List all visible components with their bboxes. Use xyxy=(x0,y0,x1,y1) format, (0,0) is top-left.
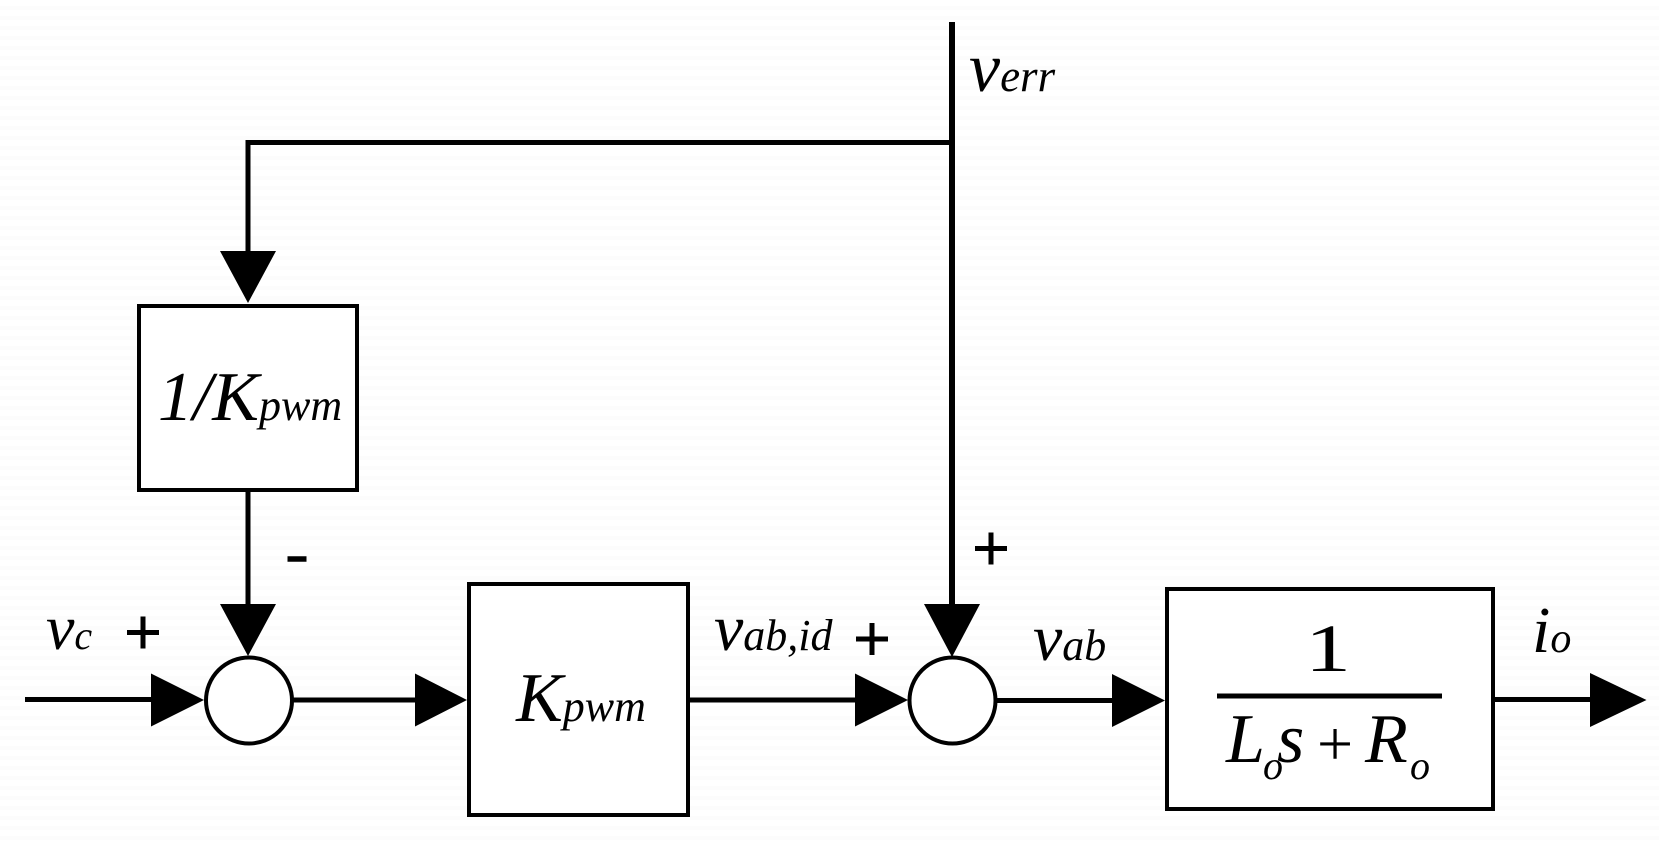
arrowhead into summing junction 1 from left xyxy=(151,674,204,727)
svg-text:1: 1 xyxy=(1305,610,1351,686)
block plant box 1/(Lo s + Ro) xyxy=(1167,589,1493,809)
wire: v_c input line xyxy=(25,697,153,702)
arrowhead into 1/Kpwm box xyxy=(220,251,276,303)
arrowhead into summing junction 2 from top xyxy=(924,604,980,657)
plant fraction bar xyxy=(1217,694,1442,699)
svg-text:vab,id: vab,id xyxy=(714,592,834,665)
wire: feedback horizontal + down segment xyxy=(248,143,954,254)
minus sign at junction 1 xyxy=(288,556,307,562)
arrowhead output xyxy=(1590,673,1647,727)
plus sign for v_err input xyxy=(975,533,1007,565)
plus sign for v_ab,id xyxy=(856,623,888,655)
wire: Kpwm box to summing junction 2 xyxy=(690,698,857,703)
arrowhead into plant box xyxy=(1112,674,1165,727)
summing junction 1 circle xyxy=(206,658,292,744)
block 1/Kpwm box xyxy=(139,306,357,490)
arrowhead into summing junction 2 from left xyxy=(855,674,908,727)
wire: junction 1 to Kpwm box xyxy=(292,698,417,703)
summing junction 2 circle xyxy=(910,658,996,744)
wire: 1/Kpwm box to summing junction 1 xyxy=(246,492,251,606)
svg-text:Los+Ro: Los+Ro xyxy=(1225,701,1430,788)
plus sign for v_c xyxy=(127,617,159,649)
wire: junction 2 to plant box xyxy=(996,698,1114,703)
svg-text:vc: vc xyxy=(46,592,92,663)
block Kpwm box xyxy=(469,584,688,815)
wire: v_err vertical line xyxy=(949,22,955,606)
svg-text:vab: vab xyxy=(1033,602,1106,675)
arrowhead into Kpwm box xyxy=(415,674,467,727)
svg-text:io: io xyxy=(1532,594,1571,667)
wire: plant box output xyxy=(1495,697,1592,702)
arrowhead into summing junction 1 xyxy=(220,604,276,656)
svg-text:verr: verr xyxy=(969,30,1056,107)
